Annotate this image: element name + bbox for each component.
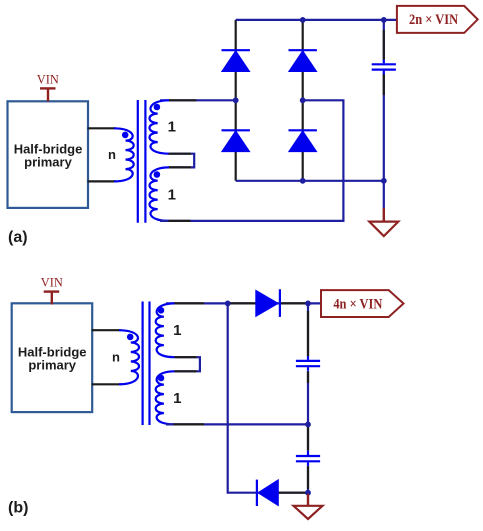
capacitor C2 (b) bbox=[296, 356, 320, 371]
wire output branch (b) bbox=[307, 303, 309, 492]
wire primary bottom lead (b) bbox=[92, 383, 122, 385]
wire secondary bottom to bridge (a) bbox=[160, 100, 343, 221]
transformer T1 secondary winding 2 (a) bbox=[149, 167, 169, 221]
diode D1 (a) bbox=[222, 50, 250, 71]
node top rail output (a) bbox=[381, 17, 387, 23]
node branch2 mid (a) bbox=[300, 97, 306, 103]
VIN terminal (a) bbox=[37, 72, 60, 102]
svg-text:primary: primary bbox=[24, 154, 72, 169]
polarity dot secondary 2 (a) bbox=[154, 171, 161, 178]
label 1 secondary 2 (a) bbox=[168, 186, 176, 203]
svg-text:1: 1 bbox=[168, 118, 176, 135]
polarity dot secondary 1 (a) bbox=[154, 104, 161, 111]
wire bridge branch 2 (a) bbox=[302, 20, 304, 181]
transformer T2 secondary winding 1 (b) bbox=[156, 303, 175, 357]
transformer T1 secondary winding 1 (a) bbox=[149, 100, 169, 153]
label 1 secondary 1 (a) bbox=[168, 118, 176, 135]
label 1 secondary 2 (b) bbox=[173, 390, 181, 407]
svg-text:VIN: VIN bbox=[37, 72, 60, 87]
node top right (b) bbox=[305, 301, 311, 307]
svg-text:n: n bbox=[108, 147, 116, 162]
wire primary bottom lead (a) bbox=[88, 180, 117, 182]
diode D3 (a) bbox=[289, 50, 317, 71]
svg-text:VIN: VIN bbox=[41, 275, 64, 290]
output flag 2n x VIN (a) bbox=[397, 6, 478, 33]
wire primary top lead (a) bbox=[88, 127, 117, 129]
polarity dot primary (b) bbox=[127, 334, 134, 341]
diode D5 (b) bbox=[256, 289, 280, 317]
svg-text:1: 1 bbox=[173, 322, 181, 339]
node bottom rail output (a) bbox=[381, 178, 387, 184]
capacitor C1 (a) bbox=[372, 60, 396, 74]
wire secondary top to bridge (a) bbox=[160, 99, 236, 101]
polarity dot primary (a) bbox=[122, 132, 129, 139]
node top rail branch2 (a) bbox=[300, 17, 306, 23]
wire secondary top net (b) bbox=[166, 302, 321, 304]
diode D2 (a) bbox=[222, 130, 250, 151]
wire left return branch (b) bbox=[228, 303, 308, 492]
label n (a) bbox=[108, 147, 116, 162]
node caps mid (b) bbox=[305, 422, 311, 428]
node bottom (b) bbox=[305, 490, 311, 496]
capacitor C3 (b) bbox=[296, 451, 320, 466]
transformer T2 secondary winding 2 (b) bbox=[156, 371, 175, 424]
wire primary top lead (b) bbox=[92, 329, 122, 331]
transformer T2 core (b) bbox=[143, 302, 150, 426]
wire center tap bracket (a) bbox=[169, 154, 195, 168]
ground (b) bbox=[294, 494, 323, 519]
wire top rail (a) bbox=[236, 19, 397, 21]
svg-text:1: 1 bbox=[173, 390, 181, 407]
output flag 4n x VIN (b) bbox=[321, 290, 404, 317]
svg-text:(a): (a) bbox=[8, 229, 28, 246]
transformer T2 primary winding (b) bbox=[119, 330, 139, 384]
wire bottom rail (a) bbox=[236, 180, 384, 182]
VIN terminal (b) bbox=[41, 275, 64, 305]
label 1 secondary 1 (b) bbox=[173, 322, 181, 339]
svg-text:4n × VIN: 4n × VIN bbox=[333, 296, 383, 312]
svg-text:2n × VIN: 2n × VIN bbox=[409, 12, 459, 28]
svg-text:n: n bbox=[112, 350, 120, 365]
diode D4 (a) bbox=[289, 130, 317, 151]
svg-text:(b): (b) bbox=[8, 500, 28, 517]
node branch1 mid (a) bbox=[233, 97, 239, 103]
half-bridge primary block (a) bbox=[8, 101, 89, 208]
polarity dot secondary 1 (b) bbox=[158, 307, 165, 314]
polarity dot secondary 2 (b) bbox=[158, 375, 165, 382]
transformer T1 core (a) bbox=[138, 100, 146, 223]
label n (b) bbox=[112, 350, 120, 365]
wire center tap bracket (b) bbox=[175, 357, 200, 371]
wire output branch (a) bbox=[383, 20, 385, 209]
transformer T1 primary winding (a) bbox=[114, 128, 134, 181]
svg-text:1: 1 bbox=[168, 186, 176, 203]
diode D6 (b) bbox=[257, 480, 278, 506]
node top left (b) bbox=[225, 301, 231, 307]
svg-text:primary: primary bbox=[28, 358, 76, 373]
half-bridge primary block (b) bbox=[12, 303, 93, 412]
wire secondary bottom net (b) bbox=[166, 423, 308, 425]
ground (a) bbox=[369, 208, 398, 236]
caption (b) bbox=[8, 500, 28, 517]
node bottom rail branch2 (a) bbox=[300, 178, 306, 184]
wire bridge branch 1 (a) bbox=[235, 20, 237, 181]
caption (a) bbox=[8, 229, 28, 246]
